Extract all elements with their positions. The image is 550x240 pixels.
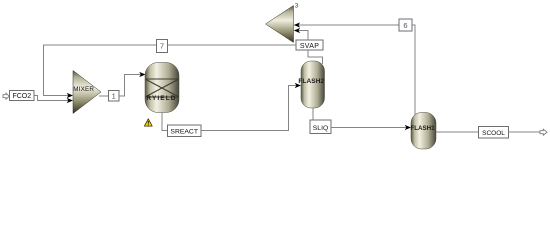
wire SVAP up into triangle 3 [297, 31, 308, 41]
stream label box SLIQ [310, 120, 331, 134]
wire FLASH2 bottom to SLIQ [312, 108, 314, 120]
stream label box SVAP [296, 40, 323, 50]
mixer block MIXER [73, 71, 101, 114]
warning icon [144, 119, 152, 126]
wire stream 1 to RYIELD inlet [119, 75, 142, 97]
arrowhead recycle into MIXER [67, 93, 73, 98]
wire MIXER out to stream 1 [99, 95, 109, 97]
svg-text:1: 1 [112, 92, 116, 101]
arrowhead 6-line into triangle 3 [294, 22, 300, 27]
stream label box 1 [109, 91, 120, 102]
wire SCOOL to product arrow [509, 131, 541, 133]
product arrow out [540, 129, 547, 135]
svg-text:FLASH2: FLASH2 [298, 78, 324, 85]
reactor RYIELD [145, 63, 179, 113]
wire RYIELD bottom to SREACT [162, 113, 168, 131]
wire FLASH1 top to box 6 [412, 25, 415, 115]
svg-text:MIXER: MIXER [73, 86, 94, 93]
svg-text:SLIQ: SLIQ [313, 125, 329, 132]
stream label box FCO2 [10, 91, 35, 101]
svg-text:7: 7 [160, 42, 164, 51]
arrowhead into RYIELD [139, 72, 145, 77]
svg-text:3: 3 [295, 3, 299, 10]
wire FLASH1 out to SCOOL [436, 131, 479, 133]
flash drum FLASH1 [410, 113, 436, 150]
stream label box SCOOL [479, 127, 509, 139]
arrowhead FCO2 into MIXER [67, 98, 73, 103]
arrowhead into FLASH2 [295, 83, 301, 88]
svg-text:SVAP: SVAP [300, 43, 319, 50]
wire recycle 7: from SVAP box left to mixer inlet [44, 45, 297, 96]
wire FLASH2 top to SVAP box [308, 50, 323, 64]
mixer block 3 (left-pointing triangle) [266, 6, 294, 43]
stream label box 6 [399, 19, 412, 31]
svg-text:SCOOL: SCOOL [482, 130, 505, 137]
svg-text:RYIELD: RYIELD [146, 95, 176, 102]
svg-text:FCO2: FCO2 [12, 93, 31, 100]
wire SREACT to FLASH2 inlet [201, 86, 298, 131]
svg-text:SREACT: SREACT [170, 128, 198, 135]
svg-text:6: 6 [403, 21, 407, 30]
feed arrow FCO2 [3, 93, 9, 99]
arrowhead SVAP into triangle 3 [294, 28, 300, 33]
stream label box SREACT [168, 125, 202, 137]
wire SLIQ to FLASH1 inlet [331, 127, 408, 129]
svg-text:FLASH1: FLASH1 [410, 125, 435, 132]
wire FCO2 to MIXER [34, 96, 71, 101]
flash drum FLASH2 [298, 61, 324, 108]
arrowhead into FLASH1 [405, 125, 411, 130]
stream label box 7 [157, 40, 168, 53]
wire stream 6 to triangle 3 [298, 24, 400, 26]
